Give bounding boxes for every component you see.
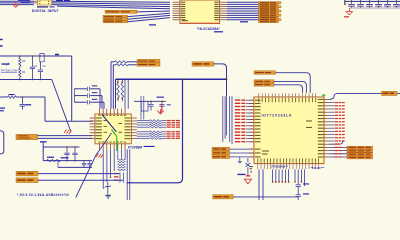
long verticals from U3 bottom xyxy=(258,169,260,200)
U3 bottom pins xyxy=(257,164,259,169)
wire P4 to U3 top xyxy=(276,73,311,93)
stub P6 right xyxy=(397,93,400,95)
crystal labels xyxy=(157,97,165,98)
verticals through resistor stack xyxy=(117,149,119,159)
U3 corner gnd marks xyxy=(250,166,253,167)
junction dots on VCC bus xyxy=(182,78,184,80)
U1 inner extra text xyxy=(104,119,108,122)
port P3 mid xyxy=(192,62,214,66)
wire corner down xyxy=(44,97,46,121)
port P4 above U3 xyxy=(254,71,276,75)
IC U3 IDT72V263LA body xyxy=(254,97,324,164)
pull-up resistor R8 xyxy=(121,79,123,83)
junction dots VCC ladder xyxy=(19,55,21,57)
port group P2 (3 ports) xyxy=(103,15,128,17)
resistor stack rows xyxy=(118,159,126,161)
vertical drop bundle with dots xyxy=(272,169,274,181)
U3 left pin rows with red net labels xyxy=(235,99,241,100)
U3 right rows with red net labels xyxy=(329,102,334,104)
svg-text:R=750Ω 1/2W: R=750Ω 1/2W xyxy=(1,69,18,73)
long verticals to bottom xyxy=(126,149,128,200)
resistor R6 row xyxy=(113,64,116,66)
port P9 xyxy=(16,178,38,183)
decoupling capacitor row C20-C25 xyxy=(351,0,353,4)
port USBDM/USBDP xyxy=(16,134,38,139)
rail 147 xyxy=(43,146,79,148)
wire 3V3 down xyxy=(42,143,44,161)
red arrow marker xyxy=(160,109,162,113)
pull-up resistor R7 xyxy=(117,79,119,83)
ground (chassis) top-left xyxy=(15,3,17,5)
wires U2 to port block xyxy=(227,1,259,3)
bypass cap row 3 xyxy=(75,101,87,103)
note text left xyxy=(2,63,10,64)
capacitor C8 xyxy=(66,147,68,153)
svg-text:*-5V:3.3V-1.5kΩ-USB#####*##: *-5V:3.3V-1.5kΩ-USB#####*## xyxy=(17,193,69,197)
red mark below U1 xyxy=(96,154,99,158)
bus loop wire xyxy=(127,79,183,183)
U3 inner extra text xyxy=(262,151,269,152)
wire P8 right xyxy=(38,173,120,175)
port block PB2 (4 stacked ports) xyxy=(347,146,373,149)
small gnd below ports xyxy=(239,157,241,161)
port block PB1 (10 stacked ports) xyxy=(259,2,282,4)
load capacitor C5 xyxy=(161,101,163,104)
wires U5 to U2 xyxy=(52,1,170,2)
ground symbol cap row xyxy=(348,8,350,12)
rail end tick xyxy=(344,0,346,5)
svg-text:IDT72V263LA: IDT72V263LA xyxy=(262,114,293,118)
U3 left pins xyxy=(249,99,254,101)
U3 top pins xyxy=(258,93,260,97)
U2 right pins xyxy=(220,1,227,3)
wires U3 to port block PB2 xyxy=(329,146,347,148)
bypass cap row 2 xyxy=(75,95,87,97)
red mark at crystal xyxy=(161,104,163,112)
crystal X1 box xyxy=(141,101,148,111)
U1 top pins xyxy=(99,109,101,114)
wire P7 right xyxy=(233,196,298,198)
net name a xyxy=(55,54,59,55)
U1 bottom pins xyxy=(99,144,101,149)
wire P9 right xyxy=(38,179,123,181)
annotation line green xyxy=(112,130,117,152)
port pair above U1 xyxy=(137,59,160,62)
svg-text:*74LVC16245A*: *74LVC16245A* xyxy=(197,27,221,31)
bus verticals into U3 left xyxy=(222,96,224,142)
cap labels xyxy=(303,183,309,184)
U2 inner text xyxy=(182,20,188,21)
ferrite bead L1 xyxy=(8,96,17,99)
green mark U3 corner xyxy=(322,94,326,96)
U2 left pins xyxy=(173,1,181,3)
wires ports to U3 xyxy=(230,148,255,150)
capacitor C1 xyxy=(31,56,33,67)
wire U3 row bent up xyxy=(329,141,343,145)
U1 right data rows group 1 xyxy=(137,120,150,122)
wire U3 to port P6 xyxy=(329,93,382,99)
red noise marks near diagonal end xyxy=(64,130,67,134)
wire to U1 left xyxy=(45,120,93,122)
wire VCC corner down xyxy=(71,56,73,121)
capacitor C7 xyxy=(296,193,301,196)
bypass cap row 1 xyxy=(75,88,87,90)
leader line from note to U1 xyxy=(76,133,112,198)
wires P5 to U3 top xyxy=(274,81,306,92)
U1 left pins xyxy=(90,117,96,119)
port P7 bottom xyxy=(213,195,234,199)
red labels below stack xyxy=(114,173,119,174)
svg-text:FY016AN***: FY016AN*** xyxy=(272,165,290,169)
capacitor C11 xyxy=(89,161,91,163)
ground filled xyxy=(105,195,111,196)
optocoupler U5 xyxy=(37,0,51,5)
capacitor C2 xyxy=(39,62,41,70)
load capacitor C4 xyxy=(150,101,152,104)
wire P1 to U2 xyxy=(137,10,170,13)
cap label text xyxy=(61,157,69,158)
U1 right pins xyxy=(131,117,137,119)
pin stubs U5 xyxy=(34,0,37,2)
crystal rail xyxy=(134,100,166,102)
wire drops to U1 top xyxy=(110,62,112,109)
resistor R3 xyxy=(19,56,21,58)
wire USBDM xyxy=(38,137,93,139)
verticals below U1 xyxy=(102,149,104,189)
wire 5V in xyxy=(0,96,8,98)
wires P2 to U2 xyxy=(128,13,171,16)
port P8 xyxy=(16,171,38,176)
connector J1 edge xyxy=(0,131,4,154)
capacitor C6 xyxy=(297,169,299,184)
rail 167 xyxy=(58,166,92,168)
VCC rail y56 xyxy=(0,55,72,57)
wire drops right of U1 xyxy=(140,96,142,120)
tiny net text below U2 left wires xyxy=(149,24,156,25)
port P1 xyxy=(105,10,137,13)
resistor R9 xyxy=(47,160,61,162)
zener D2 and gnd near U3 xyxy=(247,158,249,162)
net label text on wires xyxy=(56,0,63,1)
vertical join bypass rows xyxy=(74,89,76,102)
net label text right of U2 xyxy=(240,21,248,22)
annotation line blue through U1 xyxy=(102,115,116,132)
polarized cap box xyxy=(40,54,44,62)
bus wire VCC horizontal thick xyxy=(116,78,227,80)
IC U1 FT245BM body xyxy=(95,114,131,144)
resistor R5 row xyxy=(111,61,115,63)
port P6 right xyxy=(382,91,398,95)
capacitor C9 xyxy=(74,147,76,153)
text 3V3 xyxy=(40,141,47,142)
svg-text:FT245BM: FT245BM xyxy=(128,146,143,150)
wire input bundle left xyxy=(0,0,34,2)
svg-text:*74LVC***: *74LVC*** xyxy=(311,166,326,170)
more drops xyxy=(294,169,296,181)
wire drops to U1 top right pins xyxy=(124,79,126,108)
U1 right data rows group 2 xyxy=(137,131,150,133)
U5 refdes text xyxy=(37,6,48,7)
U3 right pins xyxy=(324,98,329,100)
resistor R4 xyxy=(19,66,21,69)
zener D1 xyxy=(107,182,109,186)
net label text left of U5 xyxy=(18,0,30,1)
tiny text left edge xyxy=(0,39,3,40)
long diagonal wire xyxy=(52,80,71,132)
VCC rail top-right xyxy=(345,0,400,2)
svg-text:DIGITAL INPUT: DIGITAL INPUT xyxy=(32,9,60,13)
wire L1 to corner xyxy=(16,96,45,98)
tiny text left edge USB xyxy=(0,108,5,109)
capacitor C3 xyxy=(21,97,23,104)
port group left of U3 xyxy=(212,147,230,151)
IC U2 74LVC16245 body xyxy=(180,0,220,23)
wire P3 down to bus xyxy=(214,64,227,96)
capacitor C10 xyxy=(83,161,85,163)
rail 160 xyxy=(43,160,92,162)
wire USBDP xyxy=(38,135,93,137)
port group P5 above U3 xyxy=(254,80,274,83)
GND rail y79.5 xyxy=(0,79,52,81)
gnd rail below caps xyxy=(349,7,400,9)
